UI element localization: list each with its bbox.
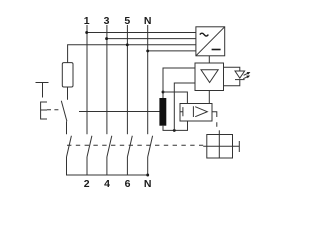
switch main blade pole5 — [127, 136, 132, 157]
switch main blade poleN — [148, 136, 153, 157]
test button E actuator — [41, 102, 47, 119]
wire pole1 vertical — [86, 25, 88, 134]
switch main blade test lane — [67, 136, 72, 157]
node junction test return / N — [146, 174, 149, 177]
svg-text:4: 4 — [104, 178, 110, 190]
relay triangle — [193, 106, 207, 117]
switch main blade pole3 — [107, 136, 112, 157]
wire pole3 bottom stub — [106, 157, 108, 175]
node junction bus3/pole5 — [126, 43, 129, 46]
wire bus line 3 — [107, 38, 196, 40]
LED D1 emission arrow 1 — [244, 73, 248, 75]
wire poleN bottom stub — [147, 157, 149, 175]
wire pole1 bottom stub — [86, 157, 88, 175]
relay K1 box — [180, 104, 212, 122]
wire test lane upper — [66, 121, 68, 134]
wire rectifier to amplifier — [208, 56, 210, 63]
amplifier U2 box — [195, 63, 224, 91]
wire bus line 1 — [87, 32, 196, 34]
LED D1 cathode bar — [235, 79, 245, 81]
wire mechanism linkage dashed — [67, 144, 203, 146]
wire bus line 5 with test-resistor branch — [68, 45, 196, 63]
wire poleN vertical — [147, 25, 149, 134]
mechanism cross vertical — [218, 130, 220, 158]
wire relay right lead — [212, 111, 217, 114]
relay magnet bar — [180, 107, 183, 116]
LED D1 bottom stub — [224, 80, 240, 86]
LED D1 top stub — [224, 67, 240, 71]
wire pole5 vertical — [126, 25, 128, 134]
wire test primary through CT — [79, 111, 160, 113]
rectifier DC symbol — [212, 49, 221, 51]
mechanism test box — [207, 135, 233, 159]
switch main blade pole1 — [87, 136, 92, 157]
LED D1 emission arrow 2 — [243, 77, 247, 79]
wire button linkage dashes — [47, 109, 62, 111]
node junction CT top — [162, 91, 165, 94]
wire bus line N — [148, 50, 196, 52]
node junction bus1/pole1 — [85, 31, 88, 34]
wire CT top to amplifier — [163, 68, 195, 92]
wire test lane bottom return — [67, 157, 148, 175]
current transformer core CT — [159, 98, 166, 126]
svg-text:6: 6 — [125, 178, 131, 190]
wire amplifier B to CT bottom — [174, 83, 195, 130]
test button T handle — [36, 83, 49, 98]
node junction bus2/pole3 — [105, 37, 108, 40]
svg-text:2: 2 — [84, 178, 90, 190]
rectifier diagonal — [196, 27, 225, 56]
node junction CT bottom — [173, 129, 176, 132]
amplifier triangle — [201, 70, 218, 83]
rectifier U1 box — [196, 27, 225, 56]
mechanism end bar — [238, 141, 240, 152]
resistor R test — [62, 63, 73, 87]
node junction bus4/poleN — [146, 49, 149, 52]
switch test contact blade — [61, 101, 67, 122]
LED D1 triangle — [235, 71, 245, 78]
wire CT top lead — [162, 92, 164, 98]
wire pole5 bottom stub — [126, 157, 128, 175]
rectifier AC symbol — [200, 33, 209, 36]
wire CT bottom lead — [163, 121, 188, 130]
mechanism cross horizontal — [203, 145, 239, 147]
svg-text:N: N — [144, 178, 152, 190]
wire relay to mechanism dashed — [216, 113, 218, 131]
wire amplifier to relay — [208, 91, 210, 104]
wire pole3 vertical — [106, 25, 108, 134]
wire resistor bottom lead — [67, 87, 69, 100]
wire CT top to relay top — [163, 92, 187, 104]
